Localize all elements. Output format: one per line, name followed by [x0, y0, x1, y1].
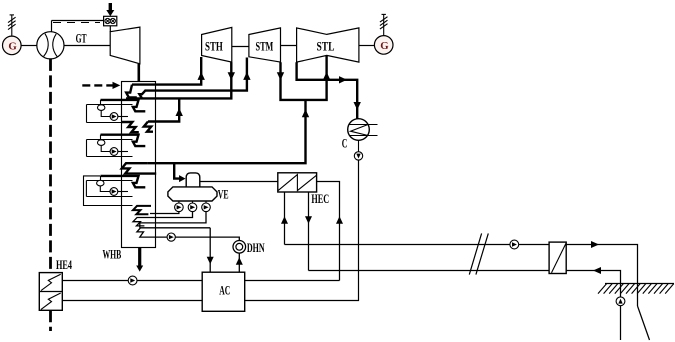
svg-text:STL: STL: [317, 38, 335, 53]
svg-text:DHN: DHN: [247, 240, 265, 255]
svg-text:STH: STH: [205, 38, 223, 53]
svg-text:G: G: [8, 41, 17, 53]
svg-text:WHB: WHB: [103, 247, 122, 262]
svg-text:VE: VE: [218, 186, 229, 201]
svg-text:G: G: [380, 40, 389, 52]
svg-text:HEC: HEC: [311, 191, 329, 206]
svg-text:STM: STM: [256, 39, 274, 54]
svg-text:HE4: HE4: [56, 257, 72, 272]
svg-text:C: C: [342, 136, 348, 151]
svg-text:GT: GT: [76, 31, 87, 46]
svg-text:AC: AC: [219, 283, 230, 298]
